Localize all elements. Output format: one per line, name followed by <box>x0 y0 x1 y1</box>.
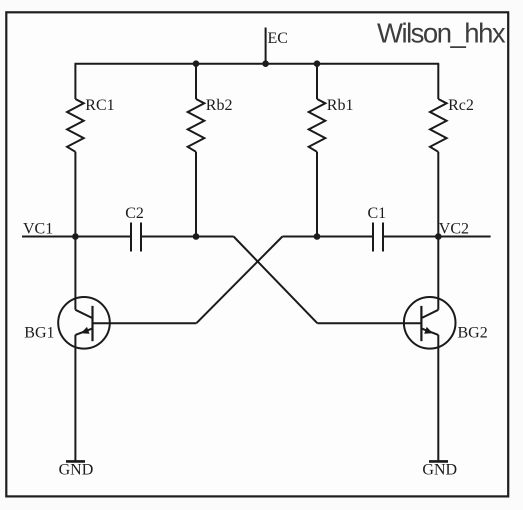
svg-text:BG2: BG2 <box>458 325 488 342</box>
wire: BG2 emitter to ground <box>437 335 439 462</box>
label Rb1 <box>327 97 354 114</box>
svg-text:RC1: RC1 <box>85 97 114 114</box>
svg-text:BG1: BG1 <box>24 325 54 342</box>
wire: cross-coupling diagonal to BG1 base <box>196 237 282 324</box>
label BG2 <box>458 325 488 342</box>
resistor Rb1 <box>309 64 326 237</box>
svg-text:Rb2: Rb2 <box>206 97 233 114</box>
ground GND right <box>429 460 448 463</box>
resistor Rb2 <box>188 64 205 237</box>
ground GND left <box>66 460 85 463</box>
label GND left <box>59 462 94 479</box>
wire: C1 to VC2 and right stub <box>384 236 491 238</box>
svg-text:Rc2: Rc2 <box>448 97 474 114</box>
wire: top supply rail EC <box>75 63 440 65</box>
resistor Rc2 <box>430 64 447 237</box>
svg-text:VC2: VC2 <box>439 221 469 238</box>
wire: Rb1 node segment to C1 <box>282 236 372 238</box>
transistor BG2 <box>404 297 456 349</box>
svg-text:C1: C1 <box>368 205 387 222</box>
capacitor C2 <box>131 223 141 252</box>
resistor RC1 <box>67 64 84 237</box>
wire: C2 to Rb2 node and cross corner <box>142 236 234 238</box>
node EC stub <box>265 28 267 64</box>
svg-text:Wilson_hhx: Wilson_hhx <box>377 17 506 48</box>
junction dot Rb2 bottom <box>193 233 200 240</box>
junction dot Rb1 top <box>314 60 321 67</box>
label GND right <box>422 462 457 479</box>
title Wilson_hhx <box>377 17 506 48</box>
junction dot node VC1 <box>72 233 79 240</box>
wire: BG1 base wire <box>93 322 197 324</box>
label VC2 <box>439 221 469 238</box>
svg-text:Rb1: Rb1 <box>327 97 354 114</box>
junction dot Rb1 bottom <box>314 233 321 240</box>
label EC <box>268 30 288 47</box>
wire: VC1 to BG1 collector <box>74 237 76 310</box>
svg-text:GND: GND <box>59 462 94 479</box>
transistor BG1 <box>58 297 110 349</box>
junction dot EC / top rail <box>262 60 269 67</box>
capacitor C1 <box>373 223 383 252</box>
label C1 <box>368 205 387 222</box>
svg-text:VC1: VC1 <box>23 221 53 238</box>
label Rc2 <box>448 97 474 114</box>
svg-text:EC: EC <box>268 30 288 47</box>
label Rb2 <box>206 97 233 114</box>
label VC1 <box>23 221 53 238</box>
label C2 <box>125 205 144 222</box>
svg-text:GND: GND <box>422 462 457 479</box>
wire: BG2 base wire <box>317 322 421 324</box>
junction dot Rb2 top <box>193 60 200 67</box>
label RC1 <box>85 97 114 114</box>
svg-text:C2: C2 <box>125 205 144 222</box>
wire: cross-coupling diagonal to BG2 base <box>234 237 318 324</box>
wire: BG1 emitter to ground <box>74 335 76 462</box>
wire: VC2 to BG2 collector <box>437 237 439 310</box>
label BG1 <box>24 325 54 342</box>
junction dot node VC2 <box>435 233 442 240</box>
wire: VC1 mid-line left stub <box>22 236 130 238</box>
